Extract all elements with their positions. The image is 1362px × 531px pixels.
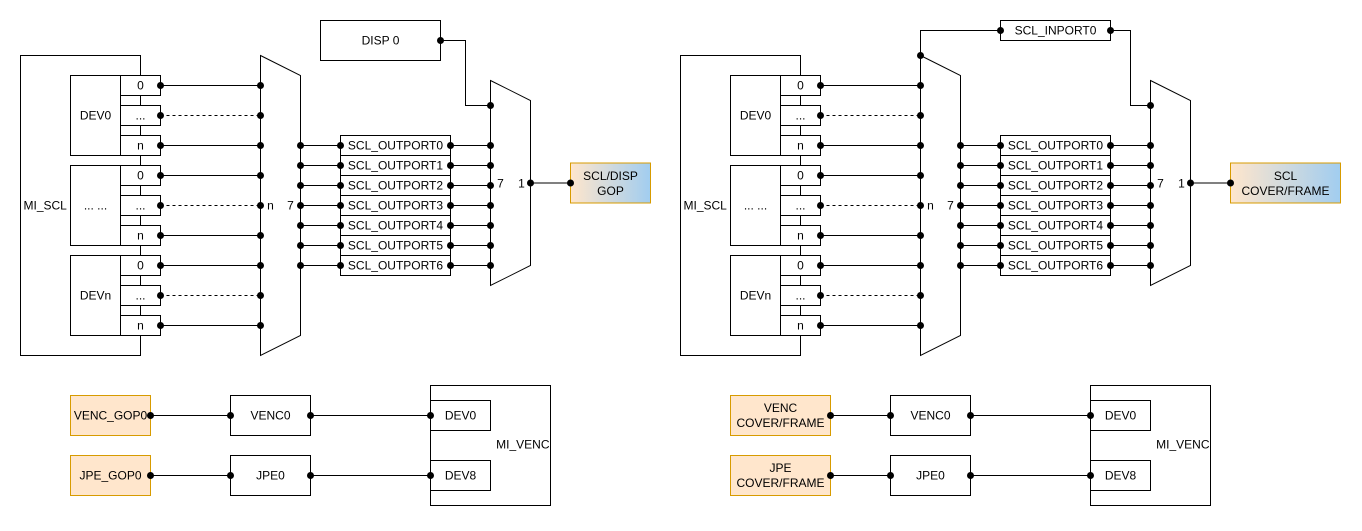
svg-text:SCL_OUTPORT2: SCL_OUTPORT2 [348, 179, 443, 193]
svg-text:DEVn: DEVn [80, 289, 111, 303]
wire SCL_OUTPORT2 to mux M2 (B) [1107, 182, 1154, 189]
block VENC_GOP0 (A) [71, 396, 151, 436]
container MI_VENC (B) [1091, 386, 1211, 506]
svg-text:SCL_INPORT0: SCL_INPORT0 [1015, 24, 1097, 38]
wire VENC source to VENC0 (B) [827, 412, 894, 419]
wire mux M1 to SCL_OUTPORT0 (B) [957, 142, 1004, 149]
svg-text:n: n [797, 139, 804, 153]
block DEV0 (A) [71, 76, 121, 156]
svg-text:0: 0 [797, 169, 804, 183]
wire mux M1 to SCL_OUTPORT5 (B) [957, 242, 1004, 249]
svg-text:n: n [137, 229, 144, 243]
wire SCL_OUTPORT6 to mux M2 (A) [447, 262, 494, 269]
container MI_VENC (A) [431, 386, 551, 506]
wire group1 port n to mux M1 (B) [817, 232, 924, 239]
svg-text:SCL_OUTPORT0: SCL_OUTPORT0 [348, 139, 443, 153]
svg-text:0: 0 [797, 79, 804, 93]
wire mux M1 to SCL_OUTPORT5 (A) [297, 242, 344, 249]
svg-text:SCL_OUTPORT6: SCL_OUTPORT6 [1008, 259, 1103, 273]
svg-text:SCL_OUTPORT2: SCL_OUTPORT2 [1008, 179, 1103, 193]
wire mux M1 to SCL_OUTPORT3 (A) [297, 202, 344, 209]
block middle block (A) [71, 166, 121, 246]
svg-text:DEV8: DEV8 [1105, 469, 1137, 483]
output box SCL/DISP GOP (A) [571, 163, 651, 203]
svg-text:SCL_OUTPORT6: SCL_OUTPORT6 [348, 259, 443, 273]
wire VENC0 to DEV0 (B) [967, 412, 1094, 419]
wire group2 port n to mux M1 (A) [157, 322, 264, 329]
svg-text:MI_VENC: MI_VENC [1156, 438, 1210, 452]
wire mux M2 to output (A) [527, 180, 574, 187]
svg-text:0: 0 [797, 259, 804, 273]
svg-text:JPE0: JPE0 [256, 469, 285, 483]
svg-text:7: 7 [1157, 177, 1164, 191]
svg-text:SCL_OUTPORT1: SCL_OUTPORT1 [1008, 159, 1103, 173]
svg-text:SCL_OUTPORT3: SCL_OUTPORT3 [1008, 199, 1103, 213]
svg-text:...: ... [795, 109, 805, 123]
wire group1 port ... to mux M1 (A) [157, 202, 264, 209]
box SCL_OUTPORT1 (A) [341, 156, 451, 176]
svg-text:VENC_GOP0: VENC_GOP0 [74, 409, 148, 423]
wire SCL_INPORT0 to mux M2 (B) [1107, 27, 1154, 109]
port 0 of group 0 (B) [781, 76, 821, 96]
svg-text:COVER/FRAME: COVER/FRAME [1241, 184, 1329, 198]
box SCL_OUTPORT4 (A) [341, 216, 451, 236]
svg-text:1: 1 [1178, 177, 1185, 191]
port n of group 1 (B) [781, 226, 821, 246]
wire mux M1 to SCL_OUTPORT0 (A) [297, 142, 344, 149]
block DEVn (A) [71, 256, 121, 336]
svg-text:SCL_OUTPORT3: SCL_OUTPORT3 [348, 199, 443, 213]
box SCL_OUTPORT3 (A) [341, 196, 451, 216]
svg-text:DEV0: DEV0 [80, 109, 112, 123]
wire mux M1 to SCL_OUTPORT2 (B) [957, 182, 1004, 189]
wire group1 port ... to mux M1 (B) [817, 202, 924, 209]
block DEV0 in MI_VENC (A) [431, 401, 491, 431]
svg-text:SCL: SCL [1274, 169, 1298, 183]
svg-text:n: n [137, 139, 144, 153]
svg-text:... ...: ... ... [84, 199, 107, 213]
svg-text:0: 0 [137, 259, 144, 273]
svg-text:DEVn: DEVn [740, 289, 771, 303]
svg-text:n: n [137, 319, 144, 333]
wire SCL_OUTPORT3 to mux M2 (B) [1107, 202, 1154, 209]
wire group1 port 0 to mux M1 (B) [817, 172, 924, 179]
block middle block (B) [731, 166, 781, 246]
svg-text:...: ... [135, 199, 145, 213]
svg-text:1: 1 [518, 177, 525, 191]
wire SCL_OUTPORT0 to mux M2 (B) [1107, 142, 1154, 149]
wire JPE0 to DEV8 (A) [307, 472, 434, 479]
svg-text:DEV8: DEV8 [445, 469, 477, 483]
svg-text:... ...: ... ... [744, 199, 767, 213]
wire JPE source to JPE0 (B) [827, 472, 894, 479]
port ... of group 1 (A) [121, 196, 161, 216]
box SCL_OUTPORT2 (A) [341, 176, 451, 196]
block DEVn (B) [731, 256, 781, 336]
svg-text:SCL_OUTPORT5: SCL_OUTPORT5 [348, 239, 443, 253]
port 0 of group 1 (B) [781, 166, 821, 186]
svg-text:7: 7 [497, 177, 504, 191]
box SCL_OUTPORT6 (B) [1001, 256, 1111, 276]
wire mux M1 to SCL_OUTPORT4 (B) [957, 222, 1004, 229]
wire group0 port n to mux M1 (B) [817, 142, 924, 149]
wire JPE source to JPE0 (A) [147, 472, 234, 479]
port 0 of group 1 (A) [121, 166, 161, 186]
wire group2 port n to mux M1 (B) [817, 322, 924, 329]
svg-text:MI_VENC: MI_VENC [496, 438, 550, 452]
svg-text:DEV0: DEV0 [740, 109, 772, 123]
wire group0 port ... to mux M1 (A) [157, 112, 264, 119]
wire mux M1 to SCL_OUTPORT3 (B) [957, 202, 1004, 209]
wire SCL_OUTPORT5 to mux M2 (A) [447, 242, 494, 249]
block VENC0 (A) [231, 396, 311, 436]
svg-text:...: ... [135, 109, 145, 123]
port ... of group 1 (B) [781, 196, 821, 216]
box SCL_OUTPORT1 (B) [1001, 156, 1111, 176]
mux M2 (B) [1151, 81, 1191, 286]
box SCL_OUTPORT5 (A) [341, 236, 451, 256]
wire group0 port n to mux M1 (A) [157, 142, 264, 149]
port ... of group 2 (A) [121, 286, 161, 306]
svg-text:MI_SCL: MI_SCL [684, 199, 728, 213]
svg-text:SCL/DISP: SCL/DISP [583, 169, 638, 183]
svg-text:MI_SCL: MI_SCL [24, 199, 68, 213]
wire SCL_OUTPORT1 to mux M2 (B) [1107, 162, 1154, 169]
box SCL_OUTPORT2 (B) [1001, 176, 1111, 196]
wire DISP 0 to mux M2 (A) [437, 37, 494, 109]
box SCL_OUTPORT3 (B) [1001, 196, 1111, 216]
svg-text:7: 7 [287, 199, 294, 213]
block DEV8 in MI_VENC (A) [431, 461, 491, 491]
svg-text:SCL_OUTPORT0: SCL_OUTPORT0 [1008, 139, 1103, 153]
block DEV0 in MI_VENC (B) [1091, 401, 1151, 431]
wire SCL_OUTPORT0 to mux M2 (A) [447, 142, 494, 149]
svg-text:...: ... [795, 289, 805, 303]
port 0 of group 2 (A) [121, 256, 161, 276]
wire SCL_OUTPORT4 to mux M2 (A) [447, 222, 494, 229]
container MI_SCL (B) [681, 56, 801, 356]
wire mux M1 to SCL_OUTPORT6 (A) [297, 262, 344, 269]
block JPE COVER/FRAME (B) [731, 456, 831, 496]
wire mux M1 to SCL_OUTPORT2 (A) [297, 182, 344, 189]
output box SCL COVER/FRAME (B) [1231, 163, 1341, 203]
port n of group 2 (A) [121, 316, 161, 336]
wire SCL_OUTPORT5 to mux M2 (B) [1107, 242, 1154, 249]
wire group0 port ... to mux M1 (B) [817, 112, 924, 119]
wire mux M1 to SCL_OUTPORT4 (A) [297, 222, 344, 229]
mux M1 (B) [921, 56, 961, 356]
svg-text:COVER/FRAME: COVER/FRAME [736, 476, 824, 490]
svg-text:SCL_OUTPORT5: SCL_OUTPORT5 [1008, 239, 1103, 253]
wire mux M1 to SCL_OUTPORT1 (A) [297, 162, 344, 169]
svg-text:0: 0 [137, 169, 144, 183]
port 0 of group 2 (B) [781, 256, 821, 276]
svg-text:SCL_OUTPORT4: SCL_OUTPORT4 [1008, 219, 1103, 233]
svg-text:n: n [927, 199, 934, 213]
wire VENC source to VENC0 (A) [147, 412, 234, 419]
wire SCL_OUTPORT2 to mux M2 (A) [447, 182, 494, 189]
wire group2 port ... to mux M1 (B) [817, 292, 924, 299]
wire group0 port 0 to mux M1 (A) [157, 82, 264, 89]
svg-text:DEV0: DEV0 [445, 409, 477, 423]
mux M1 (A) [261, 56, 301, 356]
wire SCL_OUTPORT3 to mux M2 (A) [447, 202, 494, 209]
wire mux M1 to SCL_OUTPORT6 (B) [957, 262, 1004, 269]
svg-text:DISP 0: DISP 0 [362, 34, 400, 48]
port n of group 0 (A) [121, 136, 161, 156]
block DEV0 (B) [731, 76, 781, 156]
wire SCL_OUTPORT1 to mux M2 (A) [447, 162, 494, 169]
port 0 of group 0 (A) [121, 76, 161, 96]
box SCL_OUTPORT0 (B) [1001, 136, 1111, 156]
box SCL_OUTPORT4 (B) [1001, 216, 1111, 236]
wire group0 port 0 to mux M1 (B) [817, 82, 924, 89]
wire group2 port ... to mux M1 (A) [157, 292, 264, 299]
svg-text:7: 7 [947, 199, 954, 213]
block JPE_GOP0 (A) [71, 456, 151, 496]
wire mux M2 to output (B) [1187, 180, 1234, 187]
box SCL_OUTPORT6 (A) [341, 256, 451, 276]
svg-text:JPE: JPE [769, 461, 791, 475]
block SCL_INPORT0 (B) [1001, 21, 1111, 41]
wire SCL_INPORT0 to mux M1 (B) [917, 27, 1004, 59]
port n of group 0 (B) [781, 136, 821, 156]
block DEV8 in MI_VENC (B) [1091, 461, 1151, 491]
svg-text:n: n [797, 229, 804, 243]
svg-text:n: n [267, 199, 274, 213]
wire SCL_OUTPORT6 to mux M2 (B) [1107, 262, 1154, 269]
svg-text:GOP: GOP [597, 184, 624, 198]
svg-text:COVER/FRAME: COVER/FRAME [736, 416, 824, 430]
block JPE0 (A) [231, 456, 311, 496]
svg-text:VENC0: VENC0 [250, 409, 290, 423]
port n of group 2 (B) [781, 316, 821, 336]
svg-text:n: n [797, 319, 804, 333]
svg-text:SCL_OUTPORT1: SCL_OUTPORT1 [348, 159, 443, 173]
port ... of group 0 (A) [121, 106, 161, 126]
wire mux M1 to SCL_OUTPORT1 (B) [957, 162, 1004, 169]
mux M2 (A) [491, 81, 531, 286]
wire group1 port n to mux M1 (A) [157, 232, 264, 239]
block VENC COVER/FRAME (B) [731, 396, 831, 436]
block VENC0 (B) [891, 396, 971, 436]
svg-text:JPE0: JPE0 [916, 469, 945, 483]
svg-text:...: ... [795, 199, 805, 213]
wire SCL_OUTPORT4 to mux M2 (B) [1107, 222, 1154, 229]
svg-text:...: ... [135, 289, 145, 303]
wire JPE0 to DEV8 (B) [967, 472, 1094, 479]
port n of group 1 (A) [121, 226, 161, 246]
svg-text:JPE_GOP0: JPE_GOP0 [79, 469, 141, 483]
block DISP 0 (A) [321, 21, 441, 61]
svg-text:VENC0: VENC0 [910, 409, 950, 423]
box SCL_OUTPORT5 (B) [1001, 236, 1111, 256]
wire group1 port 0 to mux M1 (A) [157, 172, 264, 179]
port ... of group 2 (B) [781, 286, 821, 306]
svg-text:SCL_OUTPORT4: SCL_OUTPORT4 [348, 219, 443, 233]
block JPE0 (B) [891, 456, 971, 496]
svg-text:0: 0 [137, 79, 144, 93]
container MI_SCL (A) [21, 56, 141, 356]
wire VENC0 to DEV0 (A) [307, 412, 434, 419]
svg-text:VENC: VENC [764, 401, 798, 415]
svg-text:DEV0: DEV0 [1105, 409, 1137, 423]
wire group2 port 0 to mux M1 (A) [157, 262, 264, 269]
box SCL_OUTPORT0 (A) [341, 136, 451, 156]
port ... of group 0 (B) [781, 106, 821, 126]
wire group2 port 0 to mux M1 (B) [817, 262, 924, 269]
